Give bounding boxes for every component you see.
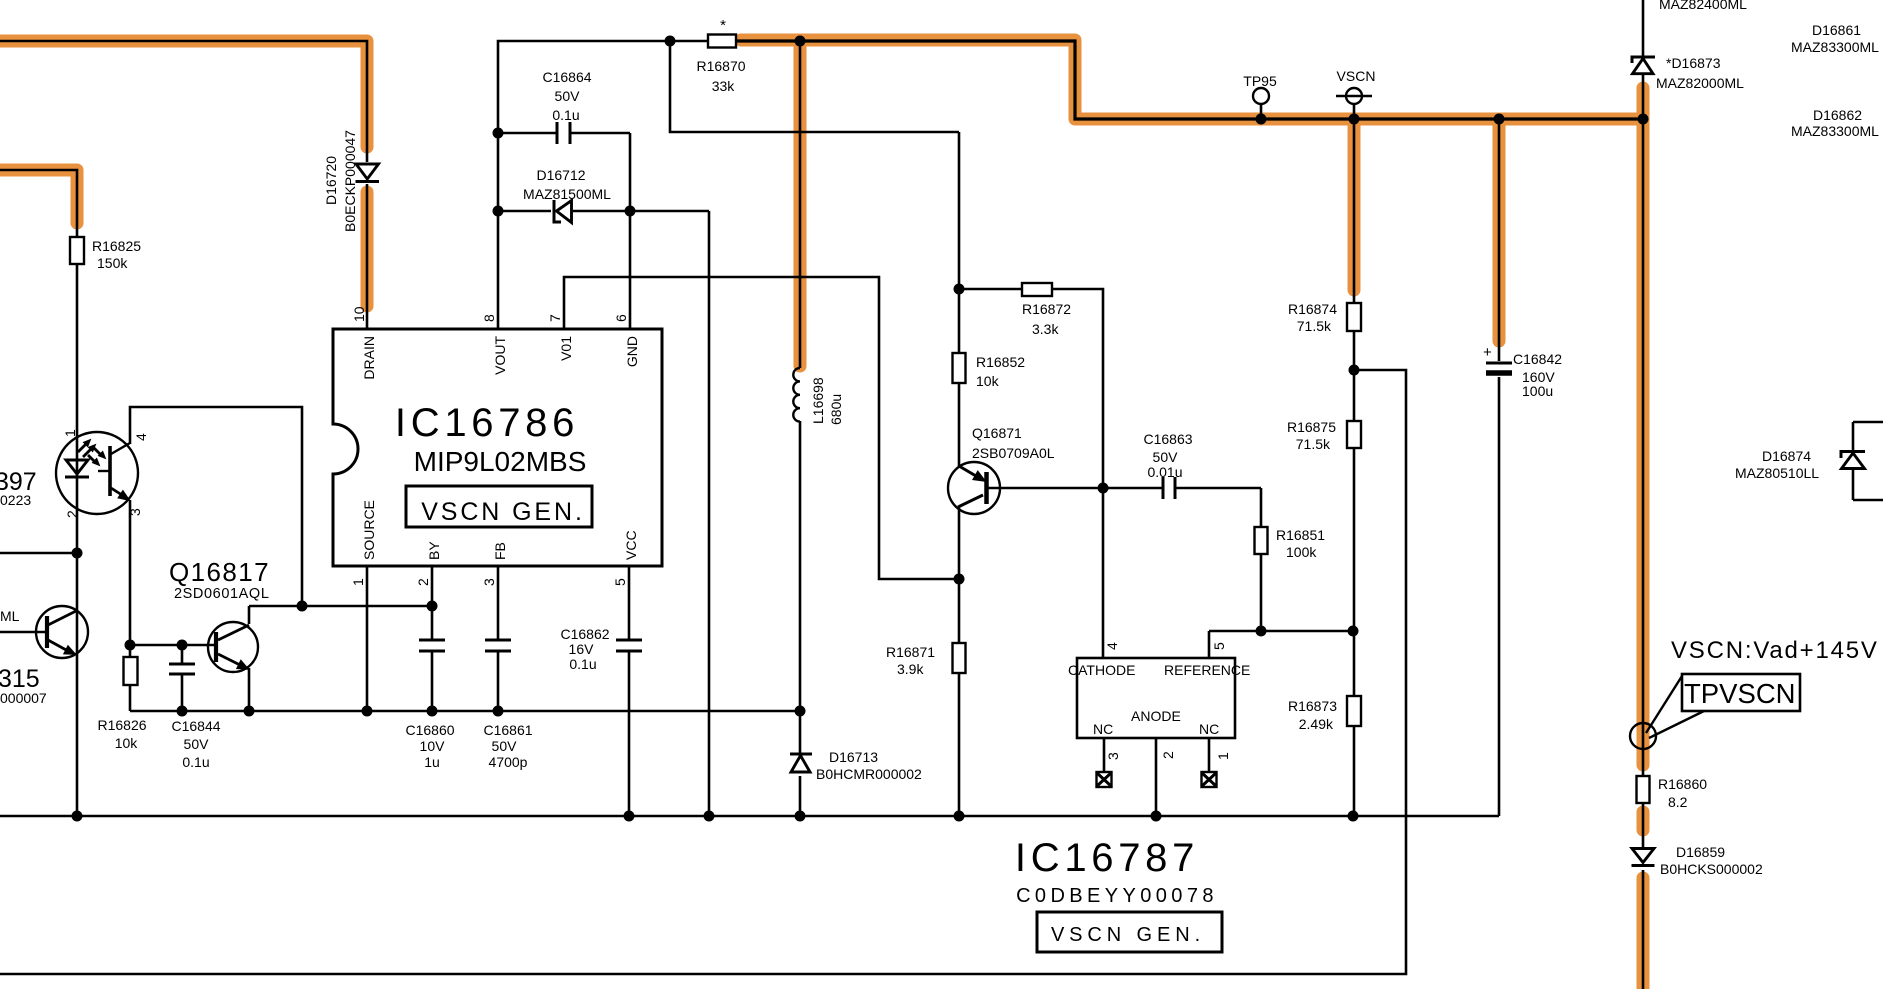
junction node Q16817 collector <box>297 601 308 612</box>
svg-text:MAZ83300ML: MAZ83300ML <box>1791 123 1879 139</box>
wire: IC16787 pin4 cathode up to base node <box>1102 488 1105 658</box>
transistor Q16871 <box>948 462 1000 514</box>
svg-text:VSCN GEN.: VSCN GEN. <box>1051 924 1205 946</box>
wire: IC pin1 SOURCE down <box>366 566 369 711</box>
wire: Q16871 collector down through R16871 to ground bus <box>958 507 961 816</box>
NC terminal pin1 <box>1202 772 1217 787</box>
junction node VSCN rail / L16698 branch <box>795 36 806 47</box>
wire: D16720 cathode down to IC16786 pin 10 <box>366 184 369 330</box>
svg-text:4: 4 <box>133 433 149 441</box>
svg-text:VSCN GEN.: VSCN GEN. <box>421 498 585 526</box>
wire: R16870 right to VSCN rail with step <box>736 41 1643 119</box>
wire: C16863 right leg down through R16851 to reference node <box>1260 488 1263 631</box>
svg-text:50V: 50V <box>1153 449 1179 465</box>
svg-text:16V: 16V <box>569 641 595 657</box>
svg-text:33k: 33k <box>712 78 736 94</box>
svg-text:C16861: C16861 <box>483 722 532 738</box>
svg-text:4: 4 <box>1104 642 1120 650</box>
junction node ground bus GND column <box>704 811 715 822</box>
svg-text:C0DBEYY00078: C0DBEYY00078 <box>1016 885 1218 907</box>
svg-text:R16871: R16871 <box>886 644 935 660</box>
junction node VSCN terminal <box>1349 114 1360 125</box>
wire: divider tap over and down to bottom frame rail <box>0 370 1406 974</box>
junction node ground bus R16873 <box>1348 811 1359 822</box>
wire: left stub to node at x77 <box>0 552 77 555</box>
capacitor C16844 <box>169 664 195 674</box>
wire orange highlight: VSCN rail from R16870 to D16873 column <box>741 40 1643 119</box>
resistor R16826 <box>124 657 138 685</box>
svg-text:3: 3 <box>127 508 143 516</box>
svg-text:2: 2 <box>64 510 80 518</box>
svg-text:D16874: D16874 <box>1762 448 1811 464</box>
resistor R16852 <box>953 353 966 383</box>
svg-text:*: * <box>720 17 726 34</box>
svg-text:1: 1 <box>350 578 366 586</box>
svg-text:C16864: C16864 <box>542 69 591 85</box>
junction node C16844 top <box>177 640 188 651</box>
svg-text:Q16817: Q16817 <box>169 557 270 587</box>
svg-text:GND: GND <box>624 336 640 367</box>
wire: R16874 / R16875 / R16873 divider column <box>1353 119 1356 816</box>
svg-text:2SD0601AQL: 2SD0601AQL <box>174 586 269 602</box>
junction node C16861 bottom on source rail <box>493 706 504 717</box>
wire: left feed down to R16825 <box>0 170 77 237</box>
wire: R16825 bottom through photocoupler LED and Q16815 to ground bus <box>76 264 79 816</box>
junction node pin1 on source rail <box>362 706 373 717</box>
svg-text:50V: 50V <box>555 88 581 104</box>
svg-text:10V: 10V <box>420 738 446 754</box>
svg-text:+: + <box>1483 344 1492 361</box>
svg-text:2SB0709A0L: 2SB0709A0L <box>972 445 1055 461</box>
wire: GND net down right side of IC to ground bus <box>708 211 711 816</box>
svg-text:TP95: TP95 <box>1243 73 1277 89</box>
optocoupler PC16897 <box>56 432 138 514</box>
svg-text:D16713: D16713 <box>829 749 878 765</box>
svg-text:MAZ80510LL: MAZ80510LL <box>1735 465 1819 481</box>
junction node R16826 top / Q16817 base <box>125 640 136 651</box>
wire: Q16817 emitter down to rail <box>248 668 251 711</box>
svg-text:100k: 100k <box>1286 544 1317 560</box>
NC terminal pin3 <box>1097 772 1112 787</box>
transistor Q16817 <box>208 622 258 672</box>
svg-text:MAZ81500ML: MAZ81500ML <box>523 186 611 202</box>
capacitor C16842 polarized <box>1486 363 1512 373</box>
svg-text:3: 3 <box>481 578 497 586</box>
svg-text:D16712: D16712 <box>536 167 585 183</box>
junction node photocoupler LED cathode <box>72 548 83 559</box>
svg-text:REFERENCE: REFERENCE <box>1164 662 1250 678</box>
svg-text:R16874: R16874 <box>1288 301 1337 317</box>
svg-text:TPVSCN: TPVSCN <box>1684 678 1796 709</box>
svg-text:C16860: C16860 <box>405 722 454 738</box>
svg-text:2.49k: 2.49k <box>1299 716 1334 732</box>
svg-text:L16698: L16698 <box>810 377 826 424</box>
wire: VOUT node down and right to Q16871 emitter column <box>670 41 959 132</box>
diode D16859 <box>1632 849 1655 866</box>
svg-text:50V: 50V <box>184 736 210 752</box>
junction node reference / R16875 bottom <box>1348 626 1359 637</box>
svg-text:5: 5 <box>612 578 628 586</box>
wire: photocoupler pin3 down to R16826 node <box>129 500 132 657</box>
svg-text:MIP9L02MBS: MIP9L02MBS <box>414 446 587 477</box>
svg-text:R16860: R16860 <box>1658 776 1707 792</box>
wire: IC pin7 V01 up over and down to Q16871 collector node <box>564 277 959 579</box>
svg-text:0.1u: 0.1u <box>182 754 209 770</box>
wire orange highlight: D16720 cathode to IC16786 pin10 <box>361 192 374 306</box>
svg-text:3.3k: 3.3k <box>1032 321 1059 337</box>
wire: D16713 column to ground bus <box>799 711 802 816</box>
transistor Q16815 <box>36 606 88 658</box>
svg-text:NC: NC <box>1199 721 1219 737</box>
wire: IC16787 pin2 anode down to ground bus <box>1155 738 1158 816</box>
junction node ground bus anode pin2 <box>1151 811 1162 822</box>
svg-text:4700p: 4700p <box>489 754 528 770</box>
junction node ground bus R16871 <box>954 811 965 822</box>
svg-text:D16861: D16861 <box>1812 22 1861 38</box>
wire: TP95 stem <box>1260 104 1263 119</box>
wire: IC pin8 VOUT column up to top rail <box>498 41 708 330</box>
junction node R16872 left <box>954 284 965 295</box>
junction node BY pin2 <box>427 601 438 612</box>
svg-text:C16862: C16862 <box>560 626 609 642</box>
svg-text:150k: 150k <box>97 255 128 271</box>
svg-text:5: 5 <box>1211 642 1227 650</box>
svg-text:10k: 10k <box>976 373 1000 389</box>
wire: photocoupler pin4 up, over and down to Q16817 collector node <box>130 407 302 606</box>
svg-text:50V: 50V <box>492 738 518 754</box>
test point TPVSCN circle <box>1630 723 1656 749</box>
svg-text:D16859: D16859 <box>1676 844 1725 860</box>
IC16787 body <box>1077 658 1235 738</box>
svg-text:1: 1 <box>62 429 78 437</box>
inductor L16698 <box>793 368 800 422</box>
svg-text:71.5k: 71.5k <box>1296 436 1331 452</box>
capacitor C16863 <box>1163 477 1175 499</box>
svg-text:000007: 000007 <box>0 690 47 706</box>
svg-text:MAZ82000ML: MAZ82000ML <box>1656 75 1744 91</box>
svg-text:C16844: C16844 <box>171 718 220 734</box>
wire: Q16815 base stub from left edge <box>0 631 46 634</box>
svg-text:0.01u: 0.01u <box>1147 464 1182 480</box>
resistor R16872 <box>1022 283 1052 296</box>
junction node C16864 left <box>493 128 504 139</box>
svg-text:10: 10 <box>351 306 367 322</box>
svg-text:R16825: R16825 <box>92 238 141 254</box>
svg-text:8.2: 8.2 <box>1668 794 1688 810</box>
IC16787 function box VSCN GEN. <box>1037 912 1222 952</box>
resistor R16860 <box>1637 776 1650 803</box>
wire: VSCN vertical column x=1643 <box>1642 0 1645 989</box>
svg-text:IC16787: IC16787 <box>1015 836 1199 880</box>
svg-text:R16870: R16870 <box>696 58 745 74</box>
svg-text:1: 1 <box>1215 752 1231 760</box>
wire orange highlight: segment between R16860 and D16859 <box>1637 812 1650 830</box>
wire orange highlight: branch down to R16874 <box>1348 125 1361 290</box>
wire: C16864 row <box>498 133 630 211</box>
test point TP95 <box>1253 88 1269 104</box>
junction node ground bus VCC column <box>624 811 635 822</box>
svg-text:C16842: C16842 <box>1513 351 1562 367</box>
svg-text:FB: FB <box>492 542 508 560</box>
terminal VSCN <box>1336 88 1372 104</box>
IC16786 function box VSCN GEN. <box>406 486 592 527</box>
svg-text:VOUT: VOUT <box>492 336 508 375</box>
svg-text:D16862: D16862 <box>1813 107 1862 123</box>
junction node R16874 bottom tap <box>1349 365 1360 376</box>
wire: Q16871 base rail through C16863 <box>986 487 1261 490</box>
wire: Q16817 base rail <box>130 644 214 647</box>
resistor R16873 <box>1347 696 1361 726</box>
svg-text:R16852: R16852 <box>976 354 1025 370</box>
wire orange highlight: branch down to L16698 <box>794 47 807 366</box>
svg-text:R16875: R16875 <box>1287 419 1336 435</box>
junction node C16860 bottom on source rail <box>427 706 438 717</box>
svg-text:MAZ82400ML: MAZ82400ML <box>1659 0 1747 12</box>
junction node Q16871 collector / V01 <box>954 574 965 585</box>
wire: C16842 column <box>1498 119 1501 816</box>
wire: source rail y=711 <box>130 710 800 713</box>
svg-text:0.1u: 0.1u <box>552 107 579 123</box>
junction node C16842 branch <box>1494 114 1505 125</box>
svg-text:BY: BY <box>426 541 442 560</box>
svg-text:IC16786: IC16786 <box>395 401 579 445</box>
junction node rail end at D16873 column <box>1638 114 1649 125</box>
wire: IC pin2 BY down through C16860 <box>431 566 434 711</box>
diode D16720 <box>356 164 380 182</box>
diode D16712 <box>554 200 572 223</box>
junction node Q16871 base / pin4 <box>1098 483 1109 494</box>
svg-text:ANODE: ANODE <box>1131 708 1181 724</box>
svg-text:C16863: C16863 <box>1143 431 1192 447</box>
wire: IC pin3 FB down through C16861 <box>497 566 500 711</box>
wire: VSCN terminal stem <box>1353 104 1356 119</box>
svg-text:7: 7 <box>547 314 563 322</box>
svg-text:DRAIN: DRAIN <box>361 336 377 380</box>
capacitor C16861 <box>485 640 511 651</box>
svg-text:0.1u: 0.1u <box>569 656 596 672</box>
wire orange highlight: branch down to C16842 <box>1493 125 1506 341</box>
svg-text:680u: 680u <box>828 394 844 425</box>
svg-text:71.5k: 71.5k <box>1297 318 1332 334</box>
resistor R16875 <box>1347 421 1361 448</box>
resistor R16871 <box>953 643 966 673</box>
wire: R16872 row and right leg down to base node <box>959 289 1103 488</box>
junction node D16712 anode <box>493 206 504 217</box>
svg-text:3.9k: 3.9k <box>897 661 924 677</box>
wire: IC pin6 GND up to D16712 cathode node <box>629 211 632 330</box>
svg-text:3: 3 <box>1105 752 1121 760</box>
svg-text:ML: ML <box>0 608 20 624</box>
junction node Q16817 emitter on source rail <box>244 706 255 717</box>
svg-text:VSCN:Vad+145V: VSCN:Vad+145V <box>1671 637 1879 664</box>
wire: top-left horizontal into D16720 anode column <box>0 41 367 162</box>
svg-text:B0HCMR000002: B0HCMR000002 <box>816 766 922 782</box>
junction node reference / R16851 <box>1256 626 1267 637</box>
wire: D16712 row <box>498 210 709 213</box>
wire: IC16787 pin1 down to NC <box>1208 738 1211 772</box>
capacitor C16864 <box>557 122 570 144</box>
resistor R16874 <box>1347 303 1361 331</box>
zener diode D16874 with partial body box <box>1841 422 1883 500</box>
junction node ground bus x77 <box>72 811 83 822</box>
svg-text:2: 2 <box>1160 751 1176 759</box>
resistor R16870 <box>708 35 736 48</box>
wire: Q16871 emitter column through R16852 <box>958 132 961 466</box>
capacitor C16860 <box>419 640 445 651</box>
svg-text:R16873: R16873 <box>1288 698 1337 714</box>
svg-text:CATHODE: CATHODE <box>1068 662 1135 678</box>
wire orange highlight: top-left feed to D16720 <box>0 41 367 147</box>
svg-text:1u: 1u <box>424 754 440 770</box>
svg-text:MAZ83300ML: MAZ83300ML <box>1791 39 1879 55</box>
svg-text:D16720: D16720 <box>323 156 339 205</box>
IC16786 body <box>333 329 662 566</box>
svg-text:315: 315 <box>0 665 40 693</box>
wire: IC pin5 VCC down through C16862 to ground bus <box>628 566 631 816</box>
svg-text:B0HCKS000002: B0HCKS000002 <box>1660 861 1763 877</box>
wire orange highlight: below D16859 to bottom edge <box>1637 878 1650 989</box>
wire: R16826 bottom to rail corner <box>129 685 132 711</box>
diode D16713 <box>790 754 812 772</box>
wire: ground bus <box>0 815 1499 818</box>
resistor R16825 <box>70 237 84 264</box>
junction node D16712 cathode / pin6 <box>625 206 636 217</box>
svg-text:0223: 0223 <box>0 492 31 508</box>
resistor R16851 <box>1255 527 1268 554</box>
svg-text:R16826: R16826 <box>97 717 146 733</box>
wire: L16698 column from orange rail to source rail <box>799 41 802 711</box>
svg-text:Q16871: Q16871 <box>972 425 1022 441</box>
junction node C16844 bottom on source rail <box>177 706 188 717</box>
wire: C16844 column <box>181 645 184 711</box>
svg-text:R16851: R16851 <box>1276 527 1325 543</box>
capacitor C16862 <box>616 640 642 651</box>
TPVSCN callout flag <box>1646 674 1800 738</box>
svg-text:NC: NC <box>1093 721 1113 737</box>
svg-text:VCC: VCC <box>623 530 639 560</box>
wire orange highlight: left feed to R16825 <box>0 170 77 223</box>
zener diode D16873 <box>1632 57 1655 74</box>
junction node ground bus D16713 <box>795 811 806 822</box>
wire: reference rail y=631 <box>1209 631 1353 658</box>
wire: Q16817 collector to BY node rail <box>249 606 432 624</box>
svg-text:8: 8 <box>481 314 497 322</box>
svg-text:SOURCE: SOURCE <box>361 500 377 560</box>
junction node VOUT / R16870 left <box>665 36 676 47</box>
junction node TP95 <box>1256 114 1267 125</box>
svg-text:*D16873: *D16873 <box>1666 55 1721 71</box>
svg-text:2: 2 <box>415 578 431 586</box>
wire: IC16787 pin3 down to NC <box>1103 738 1106 772</box>
junction node L16698 bottom / D16713 top <box>795 706 806 717</box>
svg-text:V01: V01 <box>558 336 574 361</box>
svg-text:6: 6 <box>613 314 629 322</box>
wire orange highlight: main VSCN vertical below D16873 <box>1637 88 1650 765</box>
svg-text:10k: 10k <box>115 735 139 751</box>
svg-text:100u: 100u <box>1522 383 1553 399</box>
svg-text:VSCN: VSCN <box>1337 68 1376 84</box>
svg-text:R16872: R16872 <box>1022 301 1071 317</box>
svg-text:B0ECKP000047: B0ECKP000047 <box>342 130 358 232</box>
